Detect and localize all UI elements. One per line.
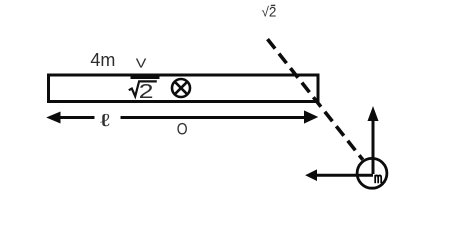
svg-text:O: O — [177, 121, 188, 139]
wire: left segment — [58, 116, 95, 119]
svg-text:2: 2 — [139, 81, 154, 103]
left arrow (velocity component) — [306, 170, 373, 180]
velocity label sqrt(2) denominator — [129, 81, 157, 96]
right arrowhead — [305, 111, 318, 123]
fraction bar (merged with rod top edge) — [131, 77, 160, 80]
svg-text:4m: 4m — [90, 50, 115, 70]
left arrowhead — [48, 112, 61, 123]
svg-text:V: V — [136, 57, 147, 71]
svg-text:√2: √2 — [262, 5, 277, 20]
label O (centre of rod) — [177, 121, 188, 139]
label m (particle mass) — [375, 175, 381, 183]
label l (length of rod) — [100, 111, 110, 130]
velocity label V numerator — [136, 57, 147, 71]
particle m (circle) — [357, 158, 387, 188]
rod (rectangle) — [49, 75, 319, 102]
svg-text:ℓ: ℓ — [100, 111, 110, 130]
up arrow (velocity component) — [368, 108, 378, 175]
dashed line (particle trajectory) — [268, 39, 363, 160]
wire: right segment — [121, 116, 306, 119]
length arrow (double headed, below rod) — [48, 111, 318, 123]
otimes symbol (velocity into page marker at centre O) — [172, 79, 190, 97]
